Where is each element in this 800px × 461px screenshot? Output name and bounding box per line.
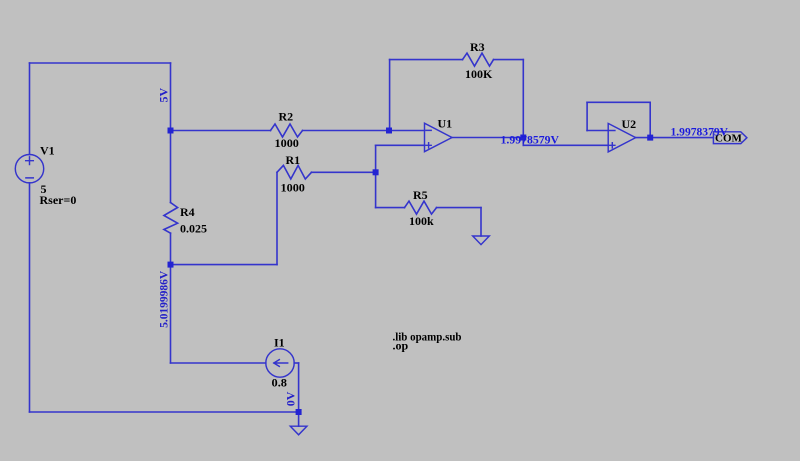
resistor R3 bbox=[463, 53, 494, 66]
svg-text:U1: U1 bbox=[438, 117, 453, 131]
svg-text:1.9978579V: 1.9978579V bbox=[501, 132, 560, 146]
wire junction row bbox=[171, 264, 278, 266]
junction node R4 bottom bbox=[168, 262, 174, 268]
wire R5 left bbox=[376, 207, 405, 209]
wire U1 plus input bbox=[376, 144, 425, 146]
wire R2 row left bbox=[171, 130, 271, 132]
resistor R5 bbox=[405, 201, 437, 214]
svg-text:I1: I1 bbox=[274, 336, 285, 350]
wire U2 plus row bbox=[523, 144, 608, 146]
ground (R5) bbox=[473, 236, 490, 245]
op-amp U1 bbox=[425, 123, 453, 152]
wire V1 top lead bbox=[29, 63, 31, 155]
svg-text:0.025: 0.025 bbox=[180, 221, 207, 235]
wire U2 feedback right bbox=[649, 102, 651, 137]
wire R3 left vertical bbox=[389, 60, 391, 131]
svg-text:5.0199986V: 5.0199986V bbox=[157, 271, 171, 328]
wire I1 drop bbox=[298, 363, 300, 412]
current source I1 bbox=[266, 349, 294, 377]
svg-text:R5: R5 bbox=[413, 188, 428, 202]
wire ground drop bottom bbox=[298, 412, 300, 426]
svg-text:R3: R3 bbox=[470, 40, 485, 54]
wire R3 right vertical bbox=[522, 60, 524, 146]
junction node R2/R3 bbox=[386, 128, 392, 134]
wire ground drop R5 bbox=[480, 208, 482, 236]
svg-text:1000: 1000 bbox=[275, 136, 299, 150]
svg-text:U2: U2 bbox=[622, 117, 637, 131]
wire bottom rail bbox=[30, 411, 299, 413]
svg-text:R4: R4 bbox=[180, 205, 195, 219]
wire R1 right bbox=[312, 171, 376, 173]
wire U2 feedback top bbox=[587, 101, 650, 103]
resistor R1 bbox=[277, 165, 312, 179]
svg-text:1.9978379V: 1.9978379V bbox=[671, 125, 729, 139]
svg-text:R2: R2 bbox=[279, 110, 294, 124]
junction node U1 out bbox=[520, 135, 526, 141]
wire vertical to R5 bbox=[375, 145, 377, 207]
svg-text:100K: 100K bbox=[465, 67, 493, 81]
svg-text:5V: 5V bbox=[157, 88, 171, 103]
wire U1 output bbox=[452, 137, 523, 139]
net flag COM bbox=[713, 132, 747, 144]
resistor R4 bbox=[164, 203, 178, 234]
junction node U2 out bbox=[647, 135, 653, 141]
junction node R1/R5 bbox=[373, 169, 379, 175]
resistor R2 bbox=[271, 124, 303, 137]
wire U2 minus input bbox=[587, 130, 608, 132]
wire V1 bottom lead bbox=[29, 183, 31, 412]
op-amp U2 bbox=[608, 123, 636, 151]
wire U2 output bbox=[636, 137, 714, 139]
wire I1 right bbox=[294, 362, 298, 364]
wire 5V vertical bbox=[170, 63, 172, 203]
svg-text:100k: 100k bbox=[409, 214, 434, 228]
wire R3 top left bbox=[390, 59, 463, 61]
wire U2 feedback left bbox=[586, 102, 588, 130]
wire R5 right bbox=[437, 207, 482, 209]
svg-text:0V: 0V bbox=[284, 391, 298, 406]
svg-text:V1: V1 bbox=[40, 143, 55, 157]
svg-text:R1: R1 bbox=[286, 153, 301, 167]
junction node 5V/R2 bbox=[168, 128, 174, 134]
voltage source V1 bbox=[15, 155, 43, 183]
junction node 0V bbox=[296, 409, 302, 415]
wire to I1 bbox=[171, 362, 266, 364]
wire R1 left vertical bbox=[276, 172, 278, 264]
svg-text:Rser=0: Rser=0 bbox=[40, 193, 77, 207]
wire top rail bbox=[30, 62, 171, 64]
wire below R4 bbox=[170, 233, 172, 363]
svg-text:.op: .op bbox=[393, 338, 409, 352]
wire R2 row right bbox=[303, 130, 425, 132]
svg-text:1000: 1000 bbox=[281, 180, 305, 194]
svg-text:0.8: 0.8 bbox=[272, 376, 288, 390]
ground (bottom) bbox=[290, 426, 307, 435]
wire R3 top right bbox=[494, 59, 524, 61]
